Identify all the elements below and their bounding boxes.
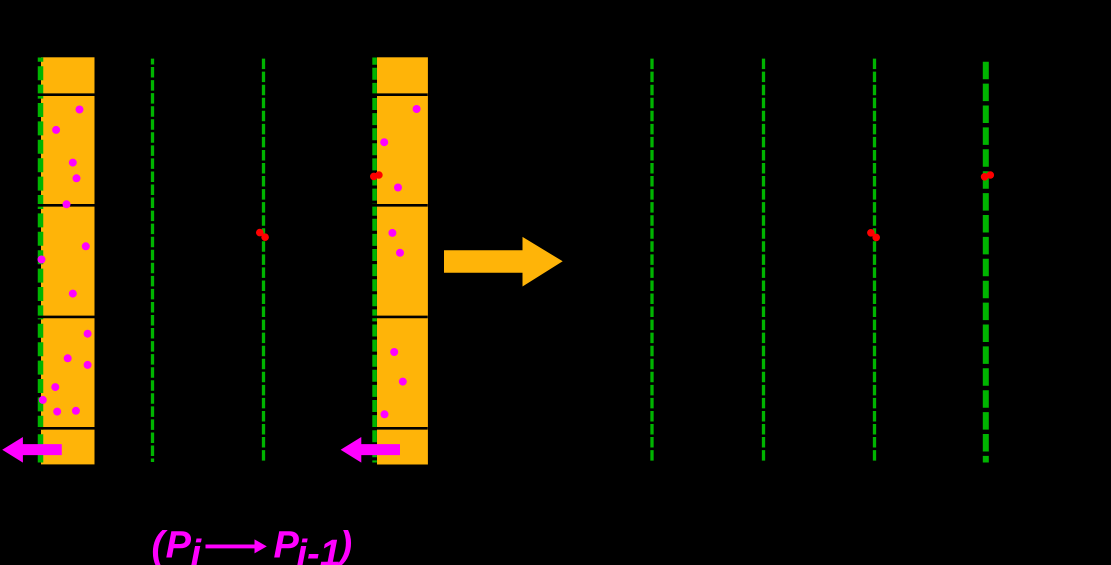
svg-text:i: i — [191, 533, 203, 565]
svg-text:i-1: i-1 — [297, 533, 341, 565]
svg-text:(P: (P — [152, 525, 193, 565]
